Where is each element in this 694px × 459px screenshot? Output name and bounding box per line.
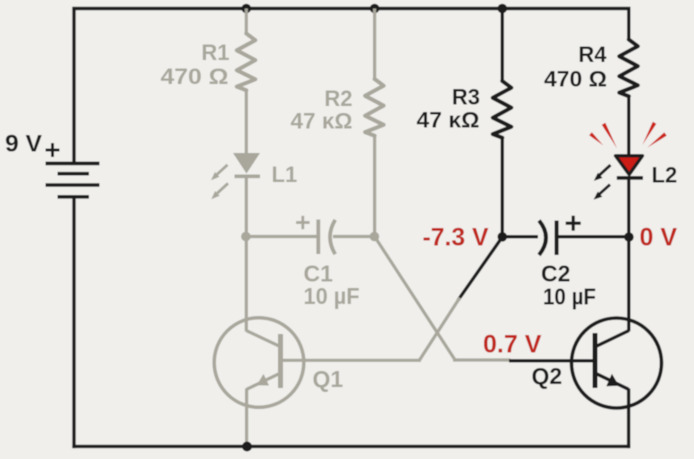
wire left rail lower	[72, 197, 75, 448]
wire top rail	[72, 7, 630, 10]
wire R1 to L1 (gray)	[245, 90, 248, 154]
svg-text:L1: L1	[272, 162, 298, 187]
wire node 0V to Q2 collector	[595, 237, 629, 347]
L2 emission arrows	[594, 165, 611, 200]
LED L2 (lit)	[616, 156, 644, 178]
junction dot C1 left (gray)	[241, 232, 251, 242]
label Q1	[313, 366, 344, 392]
junction dot C1 right (gray)	[370, 232, 380, 242]
label R4	[578, 42, 607, 67]
svg-text:Q1: Q1	[313, 366, 344, 392]
svg-text:R3: R3	[452, 85, 480, 110]
label C1	[304, 261, 334, 287]
wire to Q2 base (black segment)	[509, 359, 593, 362]
battery plus sign	[46, 143, 60, 157]
wire C1 to Q2 base diagonal (gray segment)	[375, 237, 511, 361]
junction dot bottom rail	[242, 442, 252, 452]
wire C1 node to Q1 collector (gray)	[246, 237, 281, 347]
svg-text:R2: R2	[324, 86, 352, 111]
wire Q1 base diagonal (gray segment)	[282, 298, 460, 361]
C2 plus sign	[566, 216, 581, 231]
svg-text:-7.3 V: -7.3 V	[423, 224, 489, 252]
resistor R4	[619, 40, 638, 97]
L1 emission arrows (gray)	[211, 165, 228, 200]
wire Q2 emitter to bottom rail	[627, 389, 630, 449]
value 470 ohm (R4)	[544, 67, 607, 92]
svg-text:47 κΩ: 47 κΩ	[291, 109, 353, 134]
node 0V junction dot	[624, 232, 634, 242]
capacitor C1 (gray)	[246, 220, 375, 255]
svg-text:10 µF: 10 µF	[543, 284, 596, 310]
resistor R3	[493, 81, 512, 138]
label 0.7 V	[483, 331, 542, 359]
wire R4 to L2	[627, 96, 630, 156]
value 470 ohm (R1)	[161, 64, 229, 89]
wire R3 to node -7.3V	[501, 138, 504, 238]
wire top rail to R3	[501, 9, 504, 82]
node -7.3V junction dot	[498, 232, 508, 242]
svg-text:Q2: Q2	[532, 363, 563, 389]
label R1	[201, 40, 229, 65]
svg-text:470 Ω: 470 Ω	[544, 67, 607, 92]
LED L1 (off, gray)	[233, 153, 260, 176]
wire L2 to node 0V	[627, 178, 630, 237]
label R2	[324, 86, 352, 111]
svg-text:0 V: 0 V	[640, 224, 678, 252]
svg-text:R1: R1	[201, 40, 229, 65]
capacitor C2	[502, 221, 629, 256]
wire L1 to C1 node (gray)	[245, 176, 248, 237]
label -7.3 V	[423, 224, 489, 252]
battery B1 9V	[46, 163, 100, 196]
value 47 kohm (R2)	[291, 109, 353, 134]
L2 light rays (red)	[589, 122, 667, 148]
svg-text:0.7 V: 0.7 V	[483, 331, 542, 359]
wire R2 to C1 right node (gray)	[373, 136, 376, 238]
svg-text:9 V: 9 V	[5, 131, 42, 158]
value 47 kohm (R3)	[417, 108, 480, 133]
junction dot R1 top	[242, 4, 252, 14]
junction dot R3 top	[498, 4, 508, 14]
wire left rail upper	[72, 7, 75, 164]
transistor Q2	[572, 318, 662, 408]
wire top rail to R1 (gray)	[245, 9, 248, 35]
label L1	[272, 162, 298, 187]
svg-text:R4: R4	[578, 42, 607, 67]
wire node -7.3V to Q1 base (black segment)	[458, 236, 503, 300]
label Q2	[532, 363, 563, 389]
resistor R1 (gray)	[237, 34, 256, 91]
wire bottom rail	[72, 445, 630, 448]
value 10 uF (C2)	[543, 284, 596, 310]
label L2	[652, 163, 678, 188]
junction dot R2 top	[370, 4, 380, 14]
value 10 uF (C1)	[304, 283, 360, 309]
wire Q1 emitter to bottom rail (gray)	[245, 389, 248, 447]
transistor Q1 (gray)	[214, 318, 304, 408]
svg-text:47 κΩ: 47 κΩ	[417, 108, 480, 133]
label R3	[452, 85, 480, 110]
C1 plus sign (gray)	[296, 216, 310, 229]
svg-text:470 Ω: 470 Ω	[161, 64, 229, 89]
svg-text:10 µF: 10 µF	[304, 283, 360, 309]
resistor R2 (gray)	[365, 79, 384, 136]
wire right rail upper	[627, 7, 630, 41]
label 0 V	[640, 224, 678, 252]
svg-text:L2: L2	[652, 163, 678, 188]
wire top rail to R2 (gray)	[373, 9, 376, 80]
label C2	[541, 261, 570, 287]
label 9 V	[5, 131, 42, 158]
